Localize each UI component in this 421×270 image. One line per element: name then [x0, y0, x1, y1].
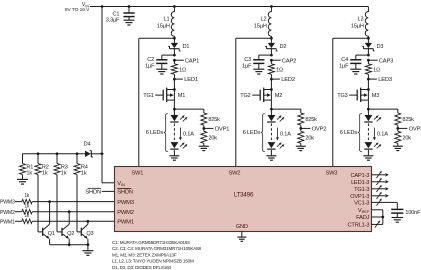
svg-text:LED1: LED1: [184, 77, 198, 83]
node OVP2: [301, 127, 327, 133]
node OVP1: [204, 127, 230, 133]
resistor 20k ch3: [395, 128, 411, 146]
ground C2: [156, 69, 167, 74]
wire PWM3 to chip: [32, 201, 115, 203]
capacitor C1: [106, 7, 135, 24]
svg-text:Q1: Q1: [48, 231, 55, 237]
junction L1: [173, 5, 176, 8]
node OVP3: [398, 127, 421, 133]
junction CAP1: [173, 59, 176, 62]
svg-text:1k: 1k: [24, 213, 30, 219]
svg-text:D3: D3: [377, 44, 384, 50]
label 6 LEDs ch3: [340, 114, 362, 152]
pin SHDN: [117, 189, 133, 196]
ground 20k ch3: [393, 146, 403, 150]
junction Q3 emitter: [87, 243, 90, 246]
svg-text:20k: 20k: [402, 135, 411, 141]
svg-text:100nF: 100nF: [405, 210, 421, 216]
svg-text:0.1A: 0.1A: [280, 132, 291, 138]
svg-text:M2: M2: [275, 93, 282, 99]
svg-text:20k: 20k: [305, 135, 314, 141]
junction VIN-branch: [101, 5, 104, 8]
junction L1 bottom: [173, 37, 176, 40]
ground C1: [124, 20, 135, 25]
svg-text:CAP1-3: CAP1-3: [350, 173, 369, 179]
svg-text:SW1: SW1: [131, 171, 143, 177]
ground C3: [253, 69, 264, 74]
svg-text:PWM3: PWM3: [0, 200, 15, 206]
ground LED string ch1: [169, 156, 179, 160]
wire to OVP divider ch2: [271, 108, 300, 110]
junction LED1: [173, 78, 176, 81]
node LED1: [174, 77, 198, 83]
svg-text:SHDN: SHDN: [85, 190, 101, 196]
svg-text:CAP1: CAP1: [185, 58, 199, 64]
junction OVP2: [299, 127, 302, 130]
wire CTRL1-3 bundle: [372, 221, 383, 228]
junction PWM3 collector: [48, 200, 51, 203]
svg-text:SW2: SW2: [229, 171, 241, 177]
svg-text:1µF: 1µF: [242, 64, 252, 70]
svg-text:3.3µF: 3.3µF: [106, 18, 120, 24]
junction C2 branch: [173, 54, 176, 57]
junction LED3: [367, 78, 370, 81]
svg-text:M3: M3: [372, 93, 379, 99]
transistor M3: [349, 79, 379, 109]
wire R2 to Q1 base: [38, 175, 42, 232]
svg-text:SHDN: SHDN: [117, 190, 133, 196]
wire R4 to Q3 base: [77, 175, 81, 232]
wire VIN rail: [90, 6, 368, 8]
resistor 20k ch1: [201, 128, 217, 146]
resistor 825k ch2: [298, 109, 317, 128]
resistor R3: [54, 154, 68, 177]
svg-text:C2: C2: [147, 57, 154, 63]
wire R3 to Q2 base: [57, 175, 61, 232]
LED string ch2 dashed wire: [270, 123, 272, 141]
svg-text:C4: C4: [341, 57, 348, 63]
ground 20k ch1: [199, 146, 209, 150]
svg-text:VC1-3: VC1-3: [354, 201, 369, 207]
transistor M1: [155, 79, 185, 109]
transistor Q1: [43, 202, 55, 245]
ground C4: [350, 69, 361, 74]
junction OVP3: [396, 127, 399, 130]
resistor 825k ch1: [201, 109, 220, 128]
svg-text:SW3: SW3: [326, 171, 338, 177]
svg-text:PWM3: PWM3: [117, 200, 134, 206]
LED string ch3 upper LED: [364, 109, 381, 122]
label 6 LEDs ch1: [146, 114, 168, 152]
junction C3 branch: [270, 54, 273, 57]
node CAP2: [271, 58, 296, 64]
junction D4 cathode: [101, 152, 104, 155]
ground 20k ch2: [296, 146, 306, 150]
ground R1: [17, 175, 28, 185]
svg-text:L3: L3: [358, 17, 364, 23]
svg-text:825k: 825k: [305, 117, 317, 123]
svg-text:CTRL1-3: CTRL1-3: [347, 223, 369, 229]
svg-text:825k: 825k: [402, 117, 414, 123]
wire SW2 to chip: [236, 38, 272, 167]
svg-text:PWM2: PWM2: [117, 210, 134, 216]
junction L2: [270, 5, 273, 8]
junction LED string ch1: [173, 108, 176, 111]
wire LED1-3 bus arrow: [372, 178, 389, 185]
label 6 LEDs ch2: [243, 114, 265, 152]
svg-text:1k: 1k: [24, 193, 30, 199]
junction FADJ: [381, 216, 384, 219]
resistor 1Ohm ch2: [268, 60, 283, 79]
junction C1: [128, 5, 131, 8]
LED string ch2 lower LED: [267, 142, 284, 156]
svg-text:D1: D1: [183, 44, 190, 50]
junction OVP1: [202, 127, 205, 130]
diode D4: [84, 141, 102, 157]
resistor 1k PWM1: [15, 213, 32, 224]
junction C4 branch: [367, 54, 370, 57]
wire emitter rail: [50, 244, 88, 246]
svg-text:1k: 1k: [61, 170, 67, 176]
svg-text:1k: 1k: [81, 170, 87, 176]
LED string ch2 upper LED: [267, 109, 284, 122]
junction M2 drain: [270, 88, 273, 91]
svg-text:GND: GND: [236, 224, 248, 230]
junction R3 rail: [56, 152, 59, 155]
capacitor 100nF: [391, 209, 421, 217]
svg-text:C2, C3, C4: MURATA GRM31MR71H1: C2, C3, C4: MURATA GRM31MR71H105KA88: [112, 246, 201, 251]
resistor R1: [20, 154, 34, 177]
LED string ch1 dashed wire: [173, 123, 175, 141]
svg-text:6 LEDs: 6 LEDs: [146, 130, 164, 136]
junction CAP3: [367, 59, 370, 62]
diode D2: [265, 38, 286, 55]
svg-text:Q2: Q2: [67, 231, 74, 237]
wire to OVP divider ch1: [174, 108, 203, 110]
svg-text:TG2: TG2: [240, 93, 250, 99]
svg-text:L1: L1: [164, 17, 170, 23]
svg-text:C1: MURATA GRM55DR71H335KA0193: C1: MURATA GRM55DR71H335KA0193: [112, 240, 190, 245]
inductor L2: [254, 7, 271, 39]
node SHDN: [85, 188, 115, 195]
resistor 1k PWM2: [15, 203, 32, 214]
diode D3: [362, 38, 383, 55]
svg-text:0.1A: 0.1A: [377, 132, 388, 138]
svg-text:15µH: 15µH: [157, 24, 170, 30]
svg-text:Q3: Q3: [86, 231, 93, 237]
wire to OVP divider ch3: [368, 108, 397, 110]
resistor 1Ohm ch1: [171, 60, 186, 79]
svg-text:6 LEDs: 6 LEDs: [340, 130, 358, 136]
svg-text:CAP2: CAP2: [282, 58, 296, 64]
node VIN label: [65, 2, 90, 13]
svg-text:TG1-3: TG1-3: [354, 187, 369, 193]
svg-text:LED3: LED3: [378, 77, 392, 83]
label 0.1A ch2: [276, 128, 291, 141]
node LED2: [271, 77, 295, 83]
svg-text:M1, M2, M3: ZETEX ZXMP6A13F: M1, M2, M3: ZETEX ZXMP6A13F: [112, 252, 177, 257]
wire VIN branch to chip: [102, 7, 115, 183]
svg-text:C3: C3: [244, 57, 251, 63]
svg-text:TG1: TG1: [143, 93, 153, 99]
svg-text:1Ω: 1Ω: [276, 67, 283, 73]
junction Q2 emitter: [68, 243, 71, 246]
svg-text:LED2: LED2: [281, 77, 295, 83]
transistor Q2: [62, 212, 74, 245]
svg-text:1µF: 1µF: [145, 64, 155, 70]
svg-text:FADJ: FADJ: [356, 215, 370, 221]
junction PWM1 collector: [87, 220, 90, 223]
svg-text:8V TO 16 V: 8V TO 16 V: [65, 7, 90, 13]
junction LED string ch3: [367, 108, 370, 111]
svg-text:15µH: 15µH: [254, 24, 267, 30]
junction M1 drain: [173, 88, 176, 91]
svg-text:0.1A: 0.1A: [183, 132, 194, 138]
junction L2 bottom: [270, 37, 273, 40]
svg-text:20k: 20k: [208, 135, 217, 141]
wire SW3 to chip: [333, 38, 369, 167]
svg-text:825k: 825k: [208, 117, 220, 123]
svg-text:PWM2: PWM2: [0, 210, 15, 216]
svg-text:1µF: 1µF: [339, 64, 349, 70]
svg-text:1Ω: 1Ω: [179, 67, 186, 73]
svg-text:OVP2: OVP2: [312, 127, 327, 133]
capacitor C3: [242, 55, 271, 69]
resistor 20k ch2: [298, 128, 314, 146]
wire R-divider rail: [23, 153, 85, 155]
svg-text:C1: C1: [113, 11, 120, 17]
svg-text:OVP1: OVP1: [215, 127, 230, 133]
wire TG1-3 bus arrow: [372, 185, 389, 192]
junction L3 bottom: [367, 37, 370, 40]
resistor R2: [35, 154, 49, 177]
junction M3 drain: [367, 88, 370, 91]
svg-text:15µH: 15µH: [351, 24, 364, 30]
node CAP1: [174, 58, 199, 64]
svg-text:TG3: TG3: [337, 93, 347, 99]
LED string ch1 upper LED: [170, 109, 187, 122]
LED string ch1 lower LED: [170, 142, 187, 156]
svg-text:PWM1: PWM1: [0, 219, 15, 225]
wire VC1-3 to C5: [372, 199, 398, 210]
junction R2 rail: [37, 152, 40, 155]
svg-text:CAP3: CAP3: [379, 58, 393, 64]
svg-text:1k: 1k: [42, 170, 48, 176]
junction LED string ch2: [270, 108, 273, 111]
svg-text:1k: 1k: [26, 170, 32, 176]
junction PWM2 collector: [68, 210, 71, 213]
svg-text:1k: 1k: [24, 203, 30, 209]
LED string ch3 dashed wire: [367, 123, 369, 141]
svg-text:D4: D4: [84, 141, 91, 147]
capacitor C4: [339, 55, 368, 69]
ground LED string ch2: [266, 156, 276, 160]
junction LED2: [270, 78, 273, 81]
svg-text:D1, D2, D3: DIODES DFLS160: D1, D2, D3: DIODES DFLS160: [112, 265, 172, 270]
label 0.1A ch1: [179, 128, 194, 141]
svg-text:LT3496: LT3496: [234, 192, 254, 199]
resistor R4: [74, 154, 88, 177]
svg-text:OVP1-3: OVP1-3: [350, 194, 369, 200]
inductor L3: [351, 7, 368, 39]
svg-text:L1, L2, L3: TAIYO YUDEN NP04SZ: L1, L2, L3: TAIYO YUDEN NP04SZB 150M: [112, 259, 194, 264]
diode D1: [168, 38, 189, 55]
transistor M2: [252, 79, 282, 109]
wire PWM2 to chip: [32, 211, 115, 213]
svg-text:M1: M1: [178, 93, 185, 99]
node CAP3: [368, 58, 393, 64]
label 0.1A ch3: [373, 128, 388, 141]
svg-text:D2: D2: [280, 44, 287, 50]
wire CAP1-3 bus arrow: [372, 171, 389, 178]
svg-text:6 LEDs: 6 LEDs: [243, 130, 261, 136]
LED string ch3 lower LED: [364, 142, 381, 156]
ground LED string ch3: [363, 156, 373, 160]
capacitor C2: [145, 55, 174, 69]
wire PWM1 to chip: [32, 220, 115, 222]
ground emitters: [82, 245, 93, 256]
svg-text:L2: L2: [261, 17, 267, 23]
node LED3: [368, 77, 392, 83]
resistor 825k ch3: [395, 109, 414, 128]
junction R4 rail: [76, 152, 79, 155]
svg-text:PWM1: PWM1: [117, 219, 134, 225]
svg-text:OVP3: OVP3: [409, 127, 421, 133]
op-amp U1 LT3496 body: [115, 167, 372, 232]
wire SW1 to chip: [139, 38, 175, 167]
junction CAP2: [270, 59, 273, 62]
resistor 1k PWM3: [15, 193, 32, 204]
inductor L1: [157, 7, 174, 39]
wire OVP1-3 bus arrow: [372, 192, 389, 199]
ground 100nF: [392, 218, 404, 223]
transistor Q3: [81, 221, 93, 244]
resistor 1Ohm ch3: [365, 60, 380, 79]
wire VREF to FADJ: [372, 210, 383, 225]
svg-text:1Ω: 1Ω: [373, 67, 380, 73]
ground GND pin: [237, 231, 246, 241]
svg-text:LED1-3: LED1-3: [351, 180, 369, 186]
